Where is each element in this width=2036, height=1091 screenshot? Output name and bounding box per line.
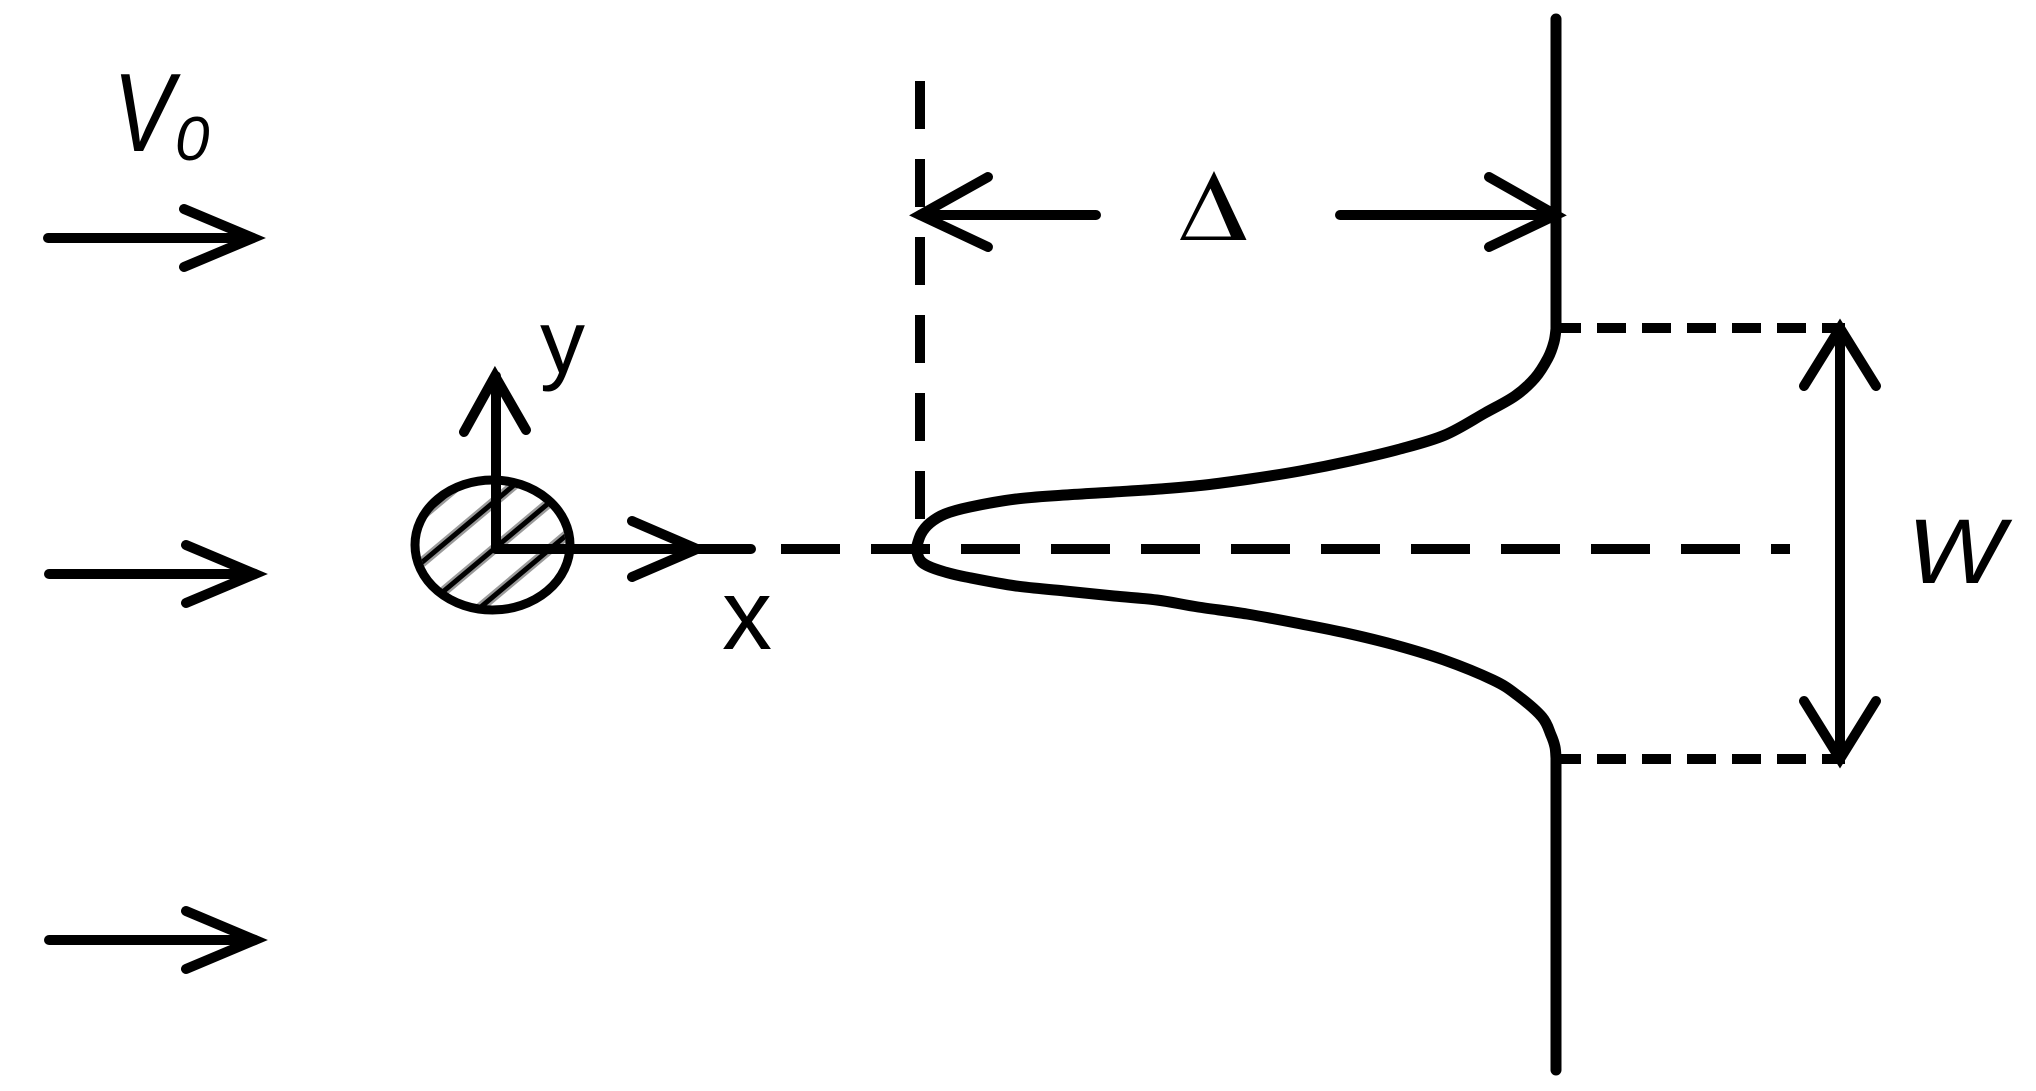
svg-text:W: W <box>1907 500 2012 603</box>
flow arrow top (V0) <box>48 209 253 267</box>
label x <box>722 559 772 671</box>
svg-text:x: x <box>722 559 772 671</box>
svg-text:y: y <box>540 293 585 393</box>
y axis <box>464 376 526 549</box>
cylinder (hatched circle) <box>296 364 695 731</box>
dimension arrow delta left <box>920 177 1096 247</box>
flow arrow bottom <box>49 911 255 969</box>
flow arrow middle <box>49 545 255 603</box>
svg-text:0: 0 <box>175 105 209 174</box>
dashed centerline <box>781 544 1790 554</box>
W dimension arrow (double-headed) <box>1804 328 1876 759</box>
wake velocity profile curve <box>916 19 1556 1070</box>
label y <box>540 293 585 393</box>
svg-text:V: V <box>113 50 181 175</box>
dashed vertical reference line <box>915 81 925 521</box>
label delta <box>1180 171 1247 240</box>
label V0 (free-stream velocity) <box>113 50 209 175</box>
dashed width line bottom <box>1552 754 1845 764</box>
x axis <box>496 521 751 577</box>
dashed width line top <box>1552 323 1845 333</box>
label W <box>1907 500 2012 603</box>
dimension arrow delta right <box>1340 177 1556 247</box>
